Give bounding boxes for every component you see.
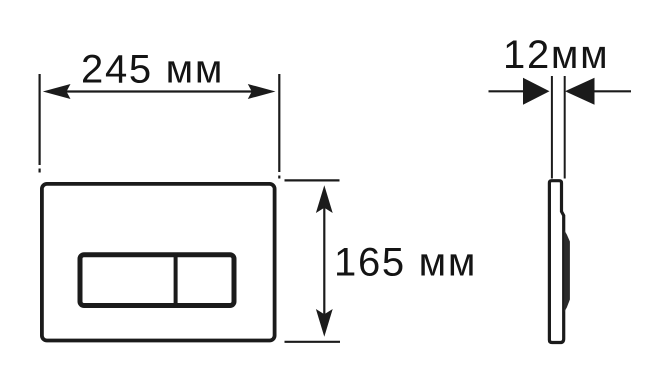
svg-text:245 мм: 245 мм: [81, 48, 224, 92]
side profile outline: [549, 181, 563, 343]
height top arrowhead: [316, 185, 333, 213]
width right extension line: [278, 74, 280, 172]
thickness left arrowhead: [523, 78, 550, 105]
thickness left tail line: [489, 90, 524, 92]
width left extension line: [38, 74, 40, 165]
height dimension line: [323, 205, 325, 318]
button panel outline: [80, 255, 234, 306]
width right extension dash: [278, 176, 280, 179]
height bottom arrowhead: [316, 309, 333, 337]
thickness left extension line: [551, 76, 553, 179]
height top extension line: [285, 179, 340, 181]
width left arrowhead: [43, 84, 71, 99]
svg-text:12мм: 12мм: [503, 33, 609, 77]
button divider: [174, 253, 178, 308]
thickness right arrowhead: [565, 78, 595, 105]
thickness right extension line: [564, 76, 566, 179]
side profile button bump: [564, 230, 570, 312]
width right arrowhead: [248, 84, 276, 99]
svg-text:165 мм: 165 мм: [334, 241, 477, 285]
thickness right tail line: [595, 90, 632, 92]
width left extension dash: [38, 169, 40, 173]
plate outline (front view): [42, 184, 275, 341]
width dimension line: [58, 90, 260, 92]
height bottom extension line: [285, 341, 341, 343]
